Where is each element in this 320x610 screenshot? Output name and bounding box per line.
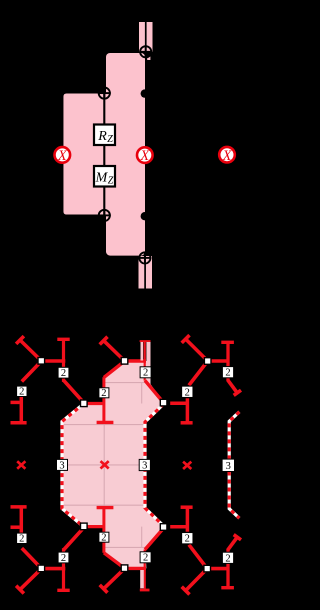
rail line top (red) [144,341,146,380]
box 2 on rail [140,367,151,378]
classical double rail bottom (pink band) [139,256,153,289]
bottom-right cluster [170,507,241,594]
node bottom [121,565,128,572]
solid border: diagonal bend to bottom node [104,553,125,569]
faint grid vertical center [103,404,105,527]
cross mark center [101,461,109,468]
control dot lower right [141,212,149,220]
box 2 on rail [140,552,151,563]
node polygon bottom-left [81,523,88,530]
segment up-left into box [189,545,207,569]
node polygon top-left [81,400,88,407]
box 2 [17,386,27,396]
dashed border left (white underlay) [62,404,84,527]
segment horizontal [42,567,66,571]
segment vertical with cap [226,563,229,588]
node polygon top-right [160,399,167,406]
pink merged patch polygon [62,361,164,568]
X measurement node middle [137,147,153,164]
svg-text:2: 2 [225,368,230,379]
svg-text:2: 2 [225,553,230,564]
segment vertical with cap [62,569,65,591]
segment down-left into box [189,361,208,385]
node [38,565,45,572]
svg-text:M: M [95,170,109,185]
top-center cluster [81,337,167,407]
CNOT target bottom-left [98,209,111,222]
svg-text:Z: Z [108,175,114,186]
dashed border right (red dashes) [145,404,164,526]
svg-text:2: 2 [143,553,148,564]
segment down-left with cap [186,569,208,591]
bottom-center cluster [81,523,167,593]
dashed path top (white underlay) [229,412,239,459]
svg-text:2: 2 [185,387,190,398]
box 2 left [182,533,193,544]
box 2 mid [58,367,69,378]
svg-text:2: 2 [19,534,24,545]
svg-text:3: 3 [59,460,64,471]
stub below right box and diagonal with cap [226,377,229,381]
segment down-left with cap [20,569,42,590]
dashed path bottom (white underlay) [229,472,239,519]
cross mark left [17,461,25,468]
rail stripe left bottom [140,570,144,588]
svg-text:3: 3 [142,460,147,471]
faint grid horizontal top arm [104,382,147,384]
svg-text:2: 2 [185,534,190,545]
node [204,358,211,365]
box 2 left [182,386,193,397]
solid border: top arm horizontal [125,359,146,362]
solid border: center column vertical with foot [102,377,105,422]
head cap of bottom center column [97,506,114,509]
svg-text:X: X [139,148,150,164]
solid border: bottom-left junction horizontal [84,525,104,528]
cross mark right [183,462,191,469]
svg-text:2: 2 [101,388,106,399]
svg-text:2: 2 [61,368,66,379]
faint grid horizontal row1 [62,424,145,426]
classical rail bottom center line [144,256,146,289]
stub column below left box [186,398,190,423]
diagonal from second box to patch corner node [64,380,85,403]
stub column above left box [186,507,190,532]
top-right cluster [170,335,241,423]
box 2 on center column [99,532,109,542]
CNOT target on top rail [139,45,152,58]
rail stripe left top [141,342,144,361]
dashed border left (red dashes) [62,404,84,527]
top-left cluster [11,336,85,423]
node [38,358,45,365]
stub below second box [62,378,65,382]
node polygon bottom-right [160,524,167,531]
stub column below box [20,397,24,424]
svg-text:R: R [97,129,107,144]
segment up-left with cap [20,340,42,361]
weight box 3 middle-right [139,459,150,470]
box 2 on center column [99,388,109,398]
dashed border right (white underlay) [145,404,164,526]
segment horizontal [42,359,66,363]
faint grid horizontal row3 [62,504,145,506]
solid border: diagonal from bottom-right node [145,528,164,549]
rail cap bottom [140,589,150,592]
left patch border (black line, top/left/bottom) [63,93,105,216]
svg-text:2: 2 [61,553,66,564]
weight box 3 far right [222,459,234,471]
weight box 3 left [57,459,68,470]
svg-text:2: 2 [143,368,148,379]
rail line bottom (red) [144,550,146,589]
svg-text:2: 2 [19,387,24,398]
segment vertical with cap [226,342,229,368]
segment up-left with cap [186,339,208,361]
CNOT target top-left [98,87,111,100]
solid border: top-left junction horizontal [84,402,104,405]
small pink tick near top XOR [147,57,150,60]
X measurement node left [55,147,71,164]
solid border: diagonal bend to top node [104,361,125,377]
faint grid horizontal bottom arm [104,546,147,548]
segment vertical with cap [62,340,65,362]
box 2 right [222,367,233,378]
X measurement node right [219,147,235,164]
svg-text:X: X [57,148,68,164]
stub above right box and diagonal with cap [226,549,229,553]
box R_Z [94,125,115,146]
solid border: diagonal to right node [145,381,164,403]
segment down-left with cap [104,568,125,588]
faint grid horizontal row2 [62,464,145,466]
svg-text:Z: Z [107,134,113,145]
segment horizontal [207,567,228,571]
svg-text:3: 3 [226,461,231,472]
right dashed column [229,412,239,518]
patch region left (pink rounded rect) [63,93,116,216]
segment horizontal [208,359,229,363]
diagonal from second box to patch corner node [64,527,85,550]
node top [121,358,128,365]
stub above second box [62,548,65,552]
foot cap of center column [97,421,114,424]
box 2 right [222,552,233,563]
box 2 [17,533,27,543]
solid border: bottom arm horizontal [125,567,146,570]
faint grid vertical right top-arm [141,383,143,404]
rail cap top [140,340,151,342]
patch region main (pink rounded rect) [106,53,145,256]
segment down-left into box [22,361,42,382]
control dot upper right [141,89,149,97]
classical rail top center line [145,22,147,52]
box M_Z [94,166,115,187]
stub column above box [20,507,24,533]
segment up-left with cap [104,341,125,361]
svg-text:2: 2 [101,533,106,544]
segment up-left into box [22,548,42,569]
vertical into second box [62,361,65,368]
box 2 mid [58,552,69,563]
svg-text:X: X [222,148,233,164]
CNOT target on bottom rail [139,252,152,265]
vertical into second box [62,563,65,569]
solid border: center column vertical bottom with head [102,508,105,553]
faint grid vertical right bottom-arm [141,527,143,548]
classical double rail top (pink band) [139,22,153,52]
node [204,565,211,572]
bottom-left cluster [11,507,85,594]
rail stripe right top [146,342,150,367]
wire (vertical qubit wire through boxes) [103,93,105,216]
